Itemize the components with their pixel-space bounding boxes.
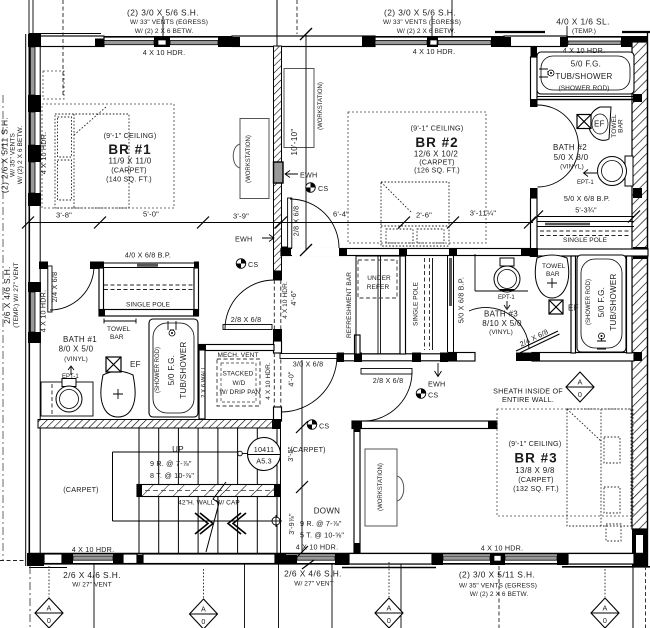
svg-text:(SHOWER ROD): (SHOWER ROD) [558, 85, 609, 92]
stair open edge lines [113, 451, 238, 453]
svg-text:2/6 X 4/6 S.H.: 2/6 X 4/6 S.H. [284, 569, 342, 579]
svg-text:W/ 35" VENTS (EGRESS): W/ 35" VENTS (EGRESS) [459, 583, 537, 590]
refreshment divider wall [400, 256, 406, 354]
svg-text:2/8 X 6/8: 2/8 X 6/8 [231, 315, 262, 324]
EF fan bath3 [549, 300, 563, 314]
pedestal sink bath1 [101, 371, 135, 417]
bath2 left wall [531, 46, 538, 59]
landing door 3/0 leaf [280, 354, 337, 359]
svg-text:(WORKSTATION): (WORKSTATION) [318, 82, 324, 130]
tub bath3 faucet [597, 338, 606, 349]
svg-text:4 X 10 HDR.: 4 X 10 HDR. [413, 47, 456, 56]
toilet bath3 [500, 258, 514, 266]
svg-text:(9'-1" CEILING): (9'-1" CEILING) [411, 124, 464, 133]
svg-text:8 T. @ 10-⅞": 8 T. @ 10-⅞" [150, 471, 194, 480]
toilet bath1 [41, 382, 93, 416]
left dash-dot section line [2, 95, 4, 560]
svg-text:(CARPET): (CARPET) [63, 485, 99, 494]
svg-text:BAR: BAR [618, 119, 625, 133]
bottom corner block left [27, 553, 44, 565]
svg-text:4 X 10 HDR.: 4 X 10 HDR. [39, 132, 48, 175]
stair wall lines below bottom wall [93, 564, 95, 628]
svg-text:2/8 X 6/8: 2/8 X 6/8 [373, 376, 404, 385]
svg-text:BR #3: BR #3 [514, 451, 557, 466]
landing stub wall [355, 335, 361, 354]
svg-text:8/0 X 5/0: 8/0 X 5/0 [59, 345, 94, 354]
mech room top wall [199, 345, 274, 351]
BR3 bottom window pair [443, 556, 490, 560]
left wall corner block [28, 34, 41, 47]
top wall box mid [232, 36, 375, 47]
svg-text:EWH: EWH [300, 171, 317, 180]
svg-text:REFER: REFER [367, 284, 390, 291]
bottom wall box right [568, 554, 634, 565]
right exterior wall hatched [632, 42, 648, 529]
svg-text:TUB/SHOWER: TUB/SHOWER [555, 72, 612, 81]
BR2 ceiling dashed box [348, 112, 486, 243]
svg-text:BATH #2: BATH #2 [553, 143, 587, 152]
horizontal dimension line [28, 222, 533, 224]
stair break line [206, 482, 226, 552]
detail circle 10411/A5.3 [248, 438, 281, 471]
stacked washer dryer dashed [217, 359, 260, 406]
closet shelf dashes [104, 284, 194, 286]
svg-text:(2) 2/6 X 5/11 S.H.: (2) 2/6 X 5/11 S.H. [0, 117, 10, 193]
svg-text:4 X 10 HDR.: 4 X 10 HDR. [282, 281, 289, 319]
top overhang bars [495, 31, 545, 33]
bath3 door arc [469, 307, 529, 349]
bath3 closet rod dashes [424, 258, 426, 350]
svg-text:CS: CS [428, 391, 438, 400]
svg-text:W/ 27" VENT: W/ 27" VENT [72, 582, 112, 589]
window under stair 2/6 [297, 556, 335, 560]
svg-text:BATH #3: BATH #3 [484, 310, 518, 319]
bath2 shower rod line [537, 96, 633, 98]
svg-text:W/ (2) 2 X 6 BETW.: W/ (2) 2 X 6 BETW. [17, 126, 24, 185]
top wall corner block [29, 37, 104, 47]
BR1 closet side walls [99, 268, 104, 310]
tick on top wall [300, 28, 312, 40]
diamond dotted leaders [48, 566, 50, 597]
svg-text:REFRESHMENT BAR: REFRESHMENT BAR [346, 272, 353, 338]
svg-text:(9'-1" CEILING): (9'-1" CEILING) [509, 439, 562, 448]
svg-text:TUB/SHOWER: TUB/SHOWER [179, 341, 188, 398]
bed BR1 dotted [55, 107, 129, 208]
BR2 door arc [290, 199, 339, 248]
BR1 door 2/4 arc [50, 266, 94, 310]
svg-text:W/ (2) 2 X 6 BETW.: W/ (2) 2 X 6 BETW. [397, 28, 456, 35]
stair marker circle [272, 517, 280, 525]
BR3 top wall [352, 421, 497, 429]
BR2 door opening gap [292, 248, 339, 257]
fixtures group [41, 52, 634, 541]
EWH / CS annotations [285, 171, 298, 178]
svg-text:STACKED: STACKED [223, 371, 254, 378]
svg-text:(WORKSTATION): (WORKSTATION) [246, 135, 252, 183]
svg-text:4 X 10 HDR.: 4 X 10 HDR. [39, 290, 48, 333]
vertical dim stairs [301, 360, 303, 553]
svg-text:CS: CS [248, 260, 258, 269]
svg-text:(VINYL): (VINYL) [489, 329, 513, 336]
mech room right wall [274, 407, 282, 421]
tub bath3 [577, 255, 626, 352]
svg-text:10'-10": 10'-10" [290, 129, 299, 156]
wall stub below opening [274, 341, 282, 353]
svg-text:BATH #1: BATH #1 [63, 335, 97, 344]
EWH box on wall [274, 162, 284, 183]
svg-text:UP: UP [172, 445, 184, 454]
tub bath1 [149, 319, 198, 417]
svg-text:W/ 35" VENTS: W/ 35" VENTS [10, 132, 17, 177]
svg-text:(WORKSTATION): (WORKSTATION) [378, 463, 384, 511]
BR1 bottom wall [39, 262, 48, 270]
svg-text:(2) 3/0 X 5/6 S.H.: (2) 3/0 X 5/6 S.H. [384, 8, 456, 18]
42in wall w/cap [137, 485, 280, 497]
svg-text:9 R. @ 7-⅞": 9 R. @ 7-⅞" [300, 519, 342, 528]
svg-text:EPT-1: EPT-1 [577, 180, 594, 186]
svg-text:4 X 10 HDR.: 4 X 10 HDR. [265, 362, 272, 400]
svg-text:5/0 X 6/8 B.P.: 5/0 X 6/8 B.P. [457, 277, 466, 323]
svg-text:5'-0": 5'-0" [143, 210, 159, 219]
svg-text:3/0 X 6/8: 3/0 X 6/8 [293, 360, 324, 369]
svg-text:(CARPET): (CARPET) [290, 445, 326, 454]
svg-text:3'-11¼": 3'-11¼" [470, 209, 497, 218]
BR2 door leaf [288, 198, 292, 248]
svg-text:(126 SQ. FT.): (126 SQ. FT.) [414, 166, 460, 175]
left exterior wall [25, 34, 27, 566]
svg-text:5'-3¾": 5'-3¾" [575, 206, 597, 215]
window bottom left 2/6 [73, 556, 113, 560]
tub bath2 [537, 52, 634, 94]
svg-text:13/8 X 9/8: 13/8 X 9/8 [515, 466, 555, 475]
toilet niche bath3 [474, 254, 476, 291]
svg-text:4 X 10 HDR.: 4 X 10 HDR. [72, 545, 115, 554]
left wall window glass segs [31, 47, 36, 95]
svg-text:6'-4": 6'-4" [333, 210, 349, 219]
mull block [154, 37, 232, 48]
svg-text:(TEMP.): (TEMP.) [572, 28, 596, 35]
svg-text:2'-6": 2'-6" [416, 211, 432, 220]
svg-text:W/ (2) 2 X 6 BETW.: W/ (2) 2 X 6 BETW. [135, 28, 194, 35]
svg-text:(9'-1" CEILING): (9'-1" CEILING) [104, 131, 157, 140]
sidelite window 4/0 [568, 41, 621, 44]
svg-text:W/ 27" VENT: W/ 27" VENT [294, 581, 334, 588]
svg-text:9 R. @ 7-⅞": 9 R. @ 7-⅞" [150, 459, 192, 468]
top exterior wall line [29, 36, 647, 38]
svg-text:5/0 X 6/8 B.P.: 5/0 X 6/8 B.P. [564, 194, 610, 203]
svg-text:CS: CS [318, 184, 328, 193]
svg-text:(2) 3/0 X 5/11 S.H.: (2) 3/0 X 5/11 S.H. [459, 570, 535, 580]
svg-text:3'-9": 3'-9" [233, 212, 249, 221]
svg-text:2/6 X 4/6 S.H.: 2/6 X 4/6 S.H. [63, 570, 121, 580]
svg-text:2/6 X 4/6 S.H.: 2/6 X 4/6 S.H. [2, 266, 12, 324]
BR1 door 2/4 leaf [48, 266, 52, 312]
top wall box left [29, 36, 104, 47]
svg-text:5/0 F.G.: 5/0 F.G. [597, 287, 606, 317]
BR1 closet bypass door 4/0 [104, 262, 194, 264]
svg-text:42"H. WALL W/ CAP: 42"H. WALL W/ CAP [178, 500, 240, 507]
tub bath2 faucet [539, 69, 548, 77]
svg-text:5/0 F.G.: 5/0 F.G. [571, 60, 601, 69]
svg-text:UNDER: UNDER [367, 275, 391, 282]
under refer dashed [358, 260, 397, 298]
svg-text:5/0 X 8/0: 5/0 X 8/0 [554, 153, 589, 162]
svg-text:5 T. @ 10-⅝": 5 T. @ 10-⅝" [300, 531, 344, 540]
svg-text:BR #1: BR #1 [108, 142, 151, 157]
toilet bath2 [625, 156, 633, 186]
hall door 2/8 arc [365, 372, 412, 421]
bath3 door leaf diagonal [516, 331, 560, 354]
svg-text:3'-8": 3'-8" [56, 211, 72, 220]
svg-text:BAR: BAR [546, 271, 560, 278]
closet bottom wall / bath1 top [99, 310, 199, 317]
svg-text:EF: EF [594, 120, 605, 129]
chevron left [228, 513, 246, 534]
svg-text:EWH: EWH [235, 235, 252, 244]
svg-text:0: 0 [201, 617, 205, 626]
svg-text:4 X 10 HDR.: 4 X 10 HDR. [143, 48, 186, 57]
cased opening 4'-0" dashes [273, 353, 275, 407]
svg-text:4 X 10 HDR.: 4 X 10 HDR. [481, 544, 524, 553]
bottom wall box mid [349, 554, 432, 565]
lavatory bath2 [589, 107, 611, 140]
hall door 2/8 leaf [361, 369, 412, 375]
svg-text:(SHOWER ROD): (SHOWER ROD) [155, 347, 161, 393]
svg-text:W/ DRIP PAN: W/ DRIP PAN [220, 389, 261, 396]
landing door 3/0 arc [281, 356, 337, 412]
svg-text:0: 0 [578, 390, 582, 399]
BR1 small dashed box [43, 71, 64, 99]
single pole closet dashes bath2 [540, 230, 630, 232]
svg-text:4 X 10 HDR.: 4 X 10 HDR. [563, 46, 606, 55]
hatched wall below bath1 [38, 420, 280, 429]
BR2 bottom wall [281, 249, 530, 256]
svg-text:8/10 X 5/0: 8/10 X 5/0 [482, 319, 522, 328]
EF fan bath1 [106, 357, 121, 372]
bath3 tub partition wall [571, 256, 576, 353]
svg-text:10411: 10411 [254, 445, 274, 454]
mech room left wall [199, 350, 205, 419]
svg-text:EF: EF [568, 304, 579, 313]
svg-text:(VINYL): (VINYL) [64, 356, 88, 363]
bottom exterior wall [29, 553, 648, 555]
right wall bottom corner [632, 529, 648, 566]
svg-text:DOWN: DOWN [314, 507, 341, 516]
svg-text:4'-6": 4'-6" [289, 290, 298, 306]
svg-text:W/D: W/D [233, 380, 246, 387]
workstation desk BR2 [284, 69, 314, 148]
workstation desk BR3 [365, 449, 397, 526]
top wall box right pier [504, 36, 567, 47]
svg-text:A: A [578, 378, 583, 387]
section diamonds [35, 372, 619, 628]
svg-text:A: A [387, 604, 392, 613]
svg-text:4/0 X 6/8 B.P.: 4/0 X 6/8 B.P. [125, 251, 171, 260]
svg-text:(TEMP.) W/ 27" VENT: (TEMP.) W/ 27" VENT [13, 262, 20, 327]
svg-text:SINGLE POLE: SINGLE POLE [126, 302, 171, 309]
svg-text:W/ (2) 2 X 6 BETW.: W/ (2) 2 X 6 BETW. [470, 591, 529, 598]
svg-text:A5.3: A5.3 [256, 457, 272, 466]
EF fan bath2 [577, 115, 591, 129]
section/leader lines above top wall [32, 0, 34, 36]
svg-text:3'-9⅞": 3'-9⅞" [287, 513, 296, 535]
svg-text:(2) 3/0 X 5/6 S.H.: (2) 3/0 X 5/6 S.H. [127, 8, 199, 18]
svg-text:11/9 X 11/0: 11/9 X 11/0 [108, 157, 151, 166]
chevron right [195, 513, 213, 534]
svg-text:(132 SQ. FT.): (132 SQ. FT.) [513, 484, 559, 493]
svg-text:TOWEL: TOWEL [542, 263, 566, 270]
bed BR2 dotted [381, 182, 449, 246]
svg-text:BR #2: BR #2 [415, 135, 458, 150]
bath2 door half-circle [538, 105, 579, 187]
svg-text:A: A [201, 605, 206, 614]
stair hall door 2/8 arc [225, 280, 274, 329]
hatched center wall vertical [274, 46, 282, 271]
svg-text:(CARPET): (CARPET) [111, 166, 147, 175]
svg-text:ENTIRE WALL.: ENTIRE WALL. [502, 395, 554, 404]
left wall bottom corner block [27, 553, 44, 566]
svg-text:(VINYL): (VINYL) [560, 164, 584, 171]
svg-text:4'-0": 4'-0" [287, 371, 296, 387]
BR3 ceiling dashed box [497, 409, 633, 516]
stair hall door 2/8 leaf [223, 325, 272, 330]
svg-text:MECH. VENT: MECH. VENT [217, 352, 258, 359]
svg-text:(140 SQ. FT.): (140 SQ. FT.) [106, 175, 152, 184]
svg-text:W/ 33" VENTS (EGRESS): W/ 33" VENTS (EGRESS) [130, 19, 208, 26]
svg-text:0: 0 [387, 616, 391, 625]
svg-text:BAR: BAR [110, 334, 124, 341]
BR1 ceiling dashed box [42, 104, 174, 208]
cased opening 4'-6" dashes [273, 280, 275, 329]
svg-text:CS: CS [319, 422, 329, 431]
svg-text:EWH: EWH [428, 380, 445, 389]
stair right wall [354, 422, 360, 553]
tub bath1 faucet [168, 321, 176, 330]
svg-text:W/ 33" VENTS (EGRESS): W/ 33" VENTS (EGRESS) [383, 19, 461, 26]
pedestal sink bath3 [535, 255, 568, 298]
svg-text:TOWEL: TOWEL [107, 326, 131, 333]
svg-text:A: A [603, 604, 608, 613]
vertical dim 10-10 [305, 35, 307, 250]
refreshment counter [356, 256, 400, 354]
bath2 closet bypass 5/0 [537, 221, 634, 223]
svg-text:TUB/SHOWER: TUB/SHOWER [609, 273, 618, 330]
svg-text:SINGLE POLE: SINGLE POLE [563, 237, 608, 244]
bath3 closet bypass vertical 5/0 [447, 256, 449, 352]
window BR2 pair [375, 41, 427, 45]
svg-text:4/0 X 1/6 SL.: 4/0 X 1/6 SL. [556, 17, 610, 27]
left wall lower window [28, 282, 41, 292]
svg-text:A: A [47, 604, 52, 613]
svg-text:2/4 X 6/8: 2/4 X 6/8 [50, 272, 59, 303]
svg-text:EF: EF [130, 360, 141, 369]
svg-text:2 X 6 WALL: 2 X 6 WALL [202, 365, 208, 397]
bath2 closet bottom wall [530, 249, 648, 256]
svg-text:0: 0 [603, 616, 607, 625]
svg-text:0: 0 [47, 616, 51, 625]
svg-text:EPT-1: EPT-1 [498, 295, 515, 301]
right wall junction blocks [633, 94, 647, 361]
bottom wall box under stairs [143, 554, 275, 564]
bath3 bottom wall [448, 353, 475, 362]
svg-text:(SHOWER ROD): (SHOWER ROD) [586, 279, 592, 325]
bed BR3 dotted [567, 409, 631, 541]
sill lines below wall [29, 567, 67, 569]
svg-text:5/0 F.G.: 5/0 F.G. [167, 355, 176, 385]
workstation desk BR1 right [240, 119, 269, 199]
svg-text:SINGLE POLE: SINGLE POLE [413, 281, 420, 326]
refreshment closet bottom wall [337, 354, 448, 361]
svg-text:2/8 X 6/8: 2/8 X 6/8 [292, 206, 301, 237]
stairs treads [139, 428, 281, 553]
window BR1 pair [104, 41, 154, 45]
svg-text:(CARPET): (CARPET) [518, 475, 554, 484]
